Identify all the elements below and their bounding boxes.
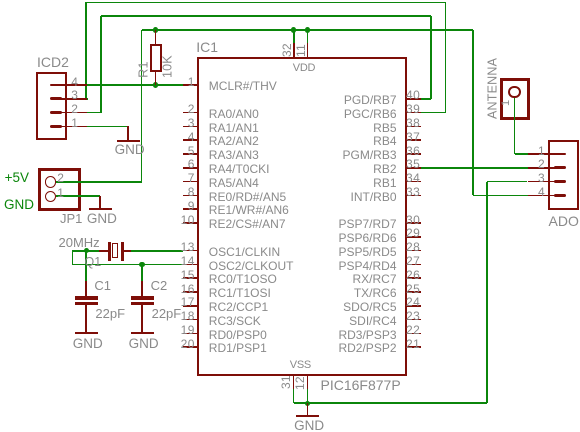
- capacitor C2 plate2: [131, 302, 154, 305]
- ic pin 19 name RD0/PSP0: [209, 329, 267, 341]
- ic pin 13 number: [181, 241, 195, 253]
- wire ADO pin3 horizontal: [487, 181, 528, 183]
- ic pin 40 number: [406, 89, 420, 101]
- ic pin 13 stub: [183, 250, 198, 252]
- ground bar C2: [131, 332, 154, 334]
- connector ADO pin 3 head: [554, 180, 566, 183]
- junction dot VDD pin32: [291, 27, 296, 32]
- ic pin 5 stub: [183, 153, 198, 155]
- ic pin 39 stub: [407, 112, 421, 114]
- ic pin 15 name RC0/T1OSO: [209, 273, 277, 285]
- label C1: [94, 279, 111, 292]
- ic pin 28 stub: [407, 250, 421, 252]
- ground label C2: [129, 337, 159, 351]
- label ADO: [549, 214, 579, 228]
- ic pin 18 number: [181, 310, 195, 322]
- ic pin 22 stub: [407, 333, 421, 335]
- ic pin 40 stub: [407, 98, 421, 100]
- label Q1: [85, 256, 102, 269]
- ic pin 7 name RA5/AN4: [209, 177, 259, 189]
- ic pin 6 number: [188, 158, 195, 170]
- ic pin 11 number: [295, 25, 307, 57]
- junction dot R1 top: [153, 27, 158, 32]
- label C1 value 22pF: [95, 307, 125, 320]
- ic pin 14 number: [181, 255, 195, 267]
- ic pin 27 stub: [407, 264, 421, 266]
- ic pin 30 number: [406, 214, 420, 226]
- wire ADO pin4 to +5V: [473, 195, 528, 197]
- ground label C1: [73, 337, 103, 351]
- ic pin 15 number: [181, 269, 195, 281]
- ground stem C2: [141, 305, 143, 332]
- label VDD: [293, 63, 315, 74]
- ic pin 34 name RB1: [373, 177, 396, 189]
- capacitor C1 bottom pin: [85, 305, 87, 332]
- antenna pin circle: [508, 86, 520, 98]
- resistor R1 top pin: [155, 30, 157, 44]
- capacitor C1 plate2: [75, 302, 98, 305]
- ic pin 37 name RB4: [373, 135, 396, 147]
- ic pin 38 name RB5: [373, 122, 396, 134]
- ic pin 2 name RA0/AN0: [209, 108, 259, 120]
- ic pin 1 number: [188, 76, 195, 88]
- ic pin 17 stub: [183, 305, 198, 307]
- ic pin 9 stub: [183, 208, 198, 210]
- wire ADO pin3 vertical: [486, 182, 488, 404]
- ic pin 33 number: [406, 186, 420, 198]
- ic pin 29 stub: [407, 236, 421, 238]
- wire net PGD left vertical: [100, 16, 102, 113]
- ic pin 37 stub: [407, 139, 421, 141]
- ic pin 10 number: [181, 214, 195, 226]
- ic pin 21 number: [406, 338, 420, 350]
- connector ADO pin 3 line: [528, 181, 561, 183]
- ic pin 9 number: [188, 200, 195, 212]
- connector ICD2 pin 4 number: [71, 76, 78, 88]
- ic pin 40 name PGD/RB7: [344, 94, 397, 106]
- ground bar C1: [75, 332, 98, 334]
- connector ICD2 pin 1 line: [55, 126, 87, 128]
- wire antenna vertical: [514, 97, 516, 154]
- ic pin 4 number: [188, 131, 195, 143]
- ic pin 23 number: [406, 310, 420, 322]
- ic pin 12 stub red: [307, 376, 309, 389]
- connector ADO pin 4 number: [538, 186, 545, 198]
- ground label ICD2: [115, 143, 145, 157]
- ic pin 15 stub: [183, 277, 198, 279]
- ic pin 4 name RA2/AN2: [209, 135, 259, 147]
- ic pin 8 number: [188, 186, 195, 198]
- connector ICD2 pin 1 head: [50, 125, 62, 128]
- ic pin 13 name OSC1/CLKIN: [209, 246, 280, 258]
- ic pin 21 stub: [407, 346, 421, 348]
- ic pin 25 number: [406, 283, 420, 295]
- ic pin 25 name TX/RC6: [354, 287, 397, 299]
- wire OSC1 crystal to pin13: [131, 250, 183, 252]
- wire ICD2 pin3 to PGC vertical join: [86, 98, 89, 100]
- ic pin 6 name RA4/T0CKI: [209, 163, 270, 175]
- ic pin 2 number: [188, 103, 195, 115]
- ground bar VSS: [296, 415, 319, 417]
- ic pin 36 stub: [407, 153, 421, 155]
- ic pin 34 stub: [407, 181, 421, 183]
- ic pin 35 name RB2: [373, 163, 396, 175]
- ic pin 22 number: [406, 324, 420, 336]
- ic pin 38 stub: [407, 126, 421, 128]
- ic pin 10 name RE2/CS#/AN7: [209, 218, 286, 230]
- antenna pin 1 number: [501, 87, 512, 106]
- wire +5V left vertical: [141, 30, 143, 182]
- ic pin 11 stub: [307, 43, 309, 58]
- ic pin 1 name MCLR#/THV: [209, 80, 277, 92]
- ground stem ICD2: [127, 126, 129, 139]
- capacitor C2 plate1: [131, 296, 154, 300]
- connector ADO pin 3 number: [538, 172, 545, 184]
- antenna ADO body: [500, 78, 530, 120]
- ic pin 5 name RA3/AN3: [209, 149, 259, 161]
- ic pin 23 name SDI/RC4: [349, 315, 396, 327]
- wire net PGC top horizontal: [86, 2, 445, 4]
- wire C1 tap: [85, 251, 87, 281]
- ic pin 12 number: [294, 358, 306, 390]
- label C2: [151, 279, 168, 292]
- wire C2 tap: [141, 264, 143, 281]
- connector ICD2 pin 2 number: [71, 103, 78, 115]
- ic pin 24 number: [406, 296, 420, 308]
- connector JP1 pin 1 number: [57, 187, 64, 199]
- ic pin 35 stub: [407, 167, 421, 169]
- resistor R1 bottom pin: [155, 72, 157, 85]
- connector JP1 body: [38, 168, 82, 212]
- wire net PGC right vertical: [445, 2, 447, 112]
- ic pin 38 number: [406, 117, 420, 129]
- connector ICD2 body: [36, 72, 67, 141]
- ic pin 36 name PGM/RB3: [342, 149, 396, 161]
- connector JP1 pin 2 circle: [45, 176, 56, 187]
- ic IC1 body: [197, 57, 407, 376]
- ic pin 30 stub: [407, 222, 421, 224]
- ic pin 18 name RC3/SCK: [209, 315, 261, 327]
- wire net PGC left vertical: [85, 2, 87, 98]
- ic pin 29 name PSP6/RD6: [338, 232, 396, 244]
- ic pin 3 name RA1/AN1: [209, 122, 259, 134]
- connector ADO pin 4 head: [554, 194, 566, 197]
- ic pin 21 name RD2/PSP2: [338, 342, 396, 354]
- wire pin40 PGD: [420, 98, 431, 100]
- label ANTENNA: [486, 23, 499, 119]
- crystal Q1 left lead: [99, 250, 108, 252]
- ic pin 27 name PSP4/RD4: [338, 260, 396, 272]
- ic pin 24 name SDO/RC5: [343, 301, 396, 313]
- crystal Q1 body: [112, 243, 118, 258]
- ic pin 37 number: [406, 131, 420, 143]
- wire pin12 stub: [307, 389, 309, 404]
- ic pin 5 number: [188, 145, 195, 157]
- ic pin 33 name INT/RB0: [350, 191, 396, 203]
- junction dot VSS: [305, 401, 310, 406]
- ic pin 7 number: [188, 172, 195, 184]
- ic pin 9 name RE1/WR#/AN6: [209, 204, 289, 216]
- wire ICD2 pin2 to PGD: [87, 112, 101, 114]
- ic pin 36 number: [406, 145, 420, 157]
- ic pin 35 number: [406, 158, 420, 170]
- ic pin 3 number: [188, 117, 195, 129]
- connector ICD2 pin 4 line: [55, 84, 87, 86]
- wire VSS bottom horizontal: [294, 402, 487, 404]
- ic pin 27 number: [406, 255, 420, 267]
- ic pin 10 stub: [183, 222, 198, 224]
- connector ADO pin 2 number: [538, 158, 545, 170]
- ic pin 7 stub: [183, 181, 198, 183]
- wire pin31 stub: [293, 389, 295, 404]
- wire VDD pin32 stub: [293, 30, 295, 43]
- ic pin 1 stub: [183, 84, 198, 86]
- ic pin 25 stub: [407, 291, 421, 293]
- connector ADO pin 2 head: [554, 166, 566, 169]
- ic pin 28 name PSP5/RD5: [338, 246, 396, 258]
- resistor R1 body: [150, 44, 162, 72]
- ic pin 31 stub red: [293, 376, 295, 389]
- ic pin 32 stub: [293, 43, 295, 58]
- ground stem VSS: [307, 403, 309, 415]
- ic pin 20 name RD1/PSP1: [209, 342, 267, 354]
- wire MCLR net: [87, 84, 183, 86]
- ic pin 33 stub: [407, 195, 421, 197]
- label R1: [137, 45, 150, 78]
- connector ICD2 pin 2 head: [50, 111, 62, 114]
- connector JP1 pin 1 circle: [45, 191, 56, 202]
- label IC1: [196, 40, 218, 54]
- net label GND green: [4, 198, 34, 212]
- connector ICD2 pin 1 number: [71, 117, 78, 129]
- junction dot crystal left: [84, 248, 89, 253]
- ic pin 17 number: [181, 296, 195, 308]
- junction dot R1 bottom: [153, 82, 158, 87]
- label VSS: [290, 360, 311, 371]
- connector ADO pin 1 number: [538, 145, 545, 157]
- ic pin 14 name OSC2/CLKOUT: [209, 260, 294, 272]
- ic pin 16 number: [181, 283, 195, 295]
- connector ADO pin 1 line: [528, 153, 561, 155]
- ic pin 19 stub: [183, 333, 198, 335]
- ic pin 3 stub: [183, 126, 198, 128]
- ground label VSS: [294, 419, 324, 432]
- label JP1: [60, 212, 82, 225]
- capacitor C1 top pin: [85, 281, 87, 296]
- ic pin 24 stub: [407, 305, 421, 307]
- ic pin 14 stub: [183, 264, 198, 266]
- ic pin 6 stub: [183, 167, 198, 169]
- ic pin 20 stub: [183, 346, 198, 348]
- label 20MHz value: [59, 236, 100, 249]
- wire pin39 PGC: [420, 112, 446, 114]
- connector ADO pin 4 line: [528, 195, 561, 197]
- ic pin 39 name PGC/RB6: [344, 108, 397, 120]
- ic pin 22 name RD3/PSP3: [338, 329, 396, 341]
- connector ADO pin 1 head: [554, 153, 566, 156]
- ic pin 18 stub: [183, 319, 198, 321]
- net label +5V: [5, 171, 29, 185]
- junction dot C2 tap: [139, 262, 144, 267]
- ic pin 8 name RE0/RD#/AN5: [209, 191, 286, 203]
- capacitor C2 top pin: [141, 281, 143, 296]
- ic pin 26 stub: [407, 277, 421, 279]
- wire OSC1 left: [72, 250, 99, 252]
- ground stem C1: [85, 305, 87, 332]
- label 10K value: [162, 32, 175, 78]
- capacitor C1 plate1: [75, 296, 98, 300]
- ic pin 30 name PSP7/RD7: [338, 218, 396, 230]
- ic pin 23 stub: [407, 319, 421, 321]
- ground bar JP1: [89, 208, 112, 210]
- connector JP1 pin 2 number: [57, 172, 64, 184]
- wire net PGD right vertical: [430, 16, 432, 99]
- ic pin 29 number: [406, 227, 420, 239]
- ic pin 17 name RC2/CCP1: [209, 301, 268, 313]
- ic pin 26 number: [406, 269, 420, 281]
- ground bar ICD2: [117, 140, 140, 142]
- connector ICD2 pin 4 head: [50, 84, 62, 87]
- label C2 value 22pF: [152, 307, 182, 320]
- wire OSC2 horizontal: [72, 264, 183, 266]
- wire ICD2 pin1 to GND: [87, 126, 128, 128]
- connector ADO pin 2 line: [528, 167, 561, 169]
- wire RB2 to ADO pin2: [420, 167, 528, 169]
- ic pin 2 stub: [183, 112, 198, 114]
- crystal Q1 right plate: [121, 242, 124, 261]
- connector ICD2 pin 3 line: [55, 98, 87, 100]
- ic pin 4 stub: [183, 139, 198, 141]
- wire JP1 pin2 +5V: [56, 181, 142, 183]
- wire antenna to ADO pin1: [515, 153, 528, 155]
- ic pin 28 number: [406, 241, 420, 253]
- ic pin 32 number: [281, 25, 293, 57]
- connector ICD2 pin 2 line: [55, 112, 87, 114]
- ic pin 26 name RX/RC7: [352, 273, 396, 285]
- ground label JP1: [87, 212, 117, 226]
- wire VDD pin11 stub: [307, 30, 309, 43]
- label ICD2: [37, 55, 69, 69]
- wire +5V rail horizontal: [142, 29, 473, 31]
- wire OSC1 bypass vertical: [72, 251, 74, 265]
- wire net PGD top horizontal: [101, 15, 431, 17]
- ic pin 34 number: [406, 172, 420, 184]
- ic pin 39 number: [406, 103, 420, 115]
- ic pin 16 stub: [183, 291, 198, 293]
- crystal Q1 right lead: [124, 250, 131, 252]
- label PIC16F877P: [321, 378, 401, 392]
- wire JP1 pin1 to GND: [56, 195, 100, 197]
- ic pin 31 number: [280, 357, 292, 389]
- connector ICD2 pin 3 head: [50, 97, 62, 100]
- junction dot VDD pin11: [305, 27, 310, 32]
- connector ADO body: [548, 140, 579, 210]
- crystal Q1 left plate: [108, 242, 111, 261]
- ground stem JP1: [99, 196, 101, 208]
- ic pin 8 stub: [183, 195, 198, 197]
- capacitor C2 bottom pin: [141, 305, 143, 332]
- ic pin 19 number: [181, 324, 195, 336]
- connector ICD2 pin 3 number: [71, 89, 78, 101]
- ic pin 16 name RC1/T1OSI: [209, 287, 271, 299]
- ic pin 20 number: [181, 338, 195, 350]
- wire +5V right vertical: [472, 30, 474, 195]
